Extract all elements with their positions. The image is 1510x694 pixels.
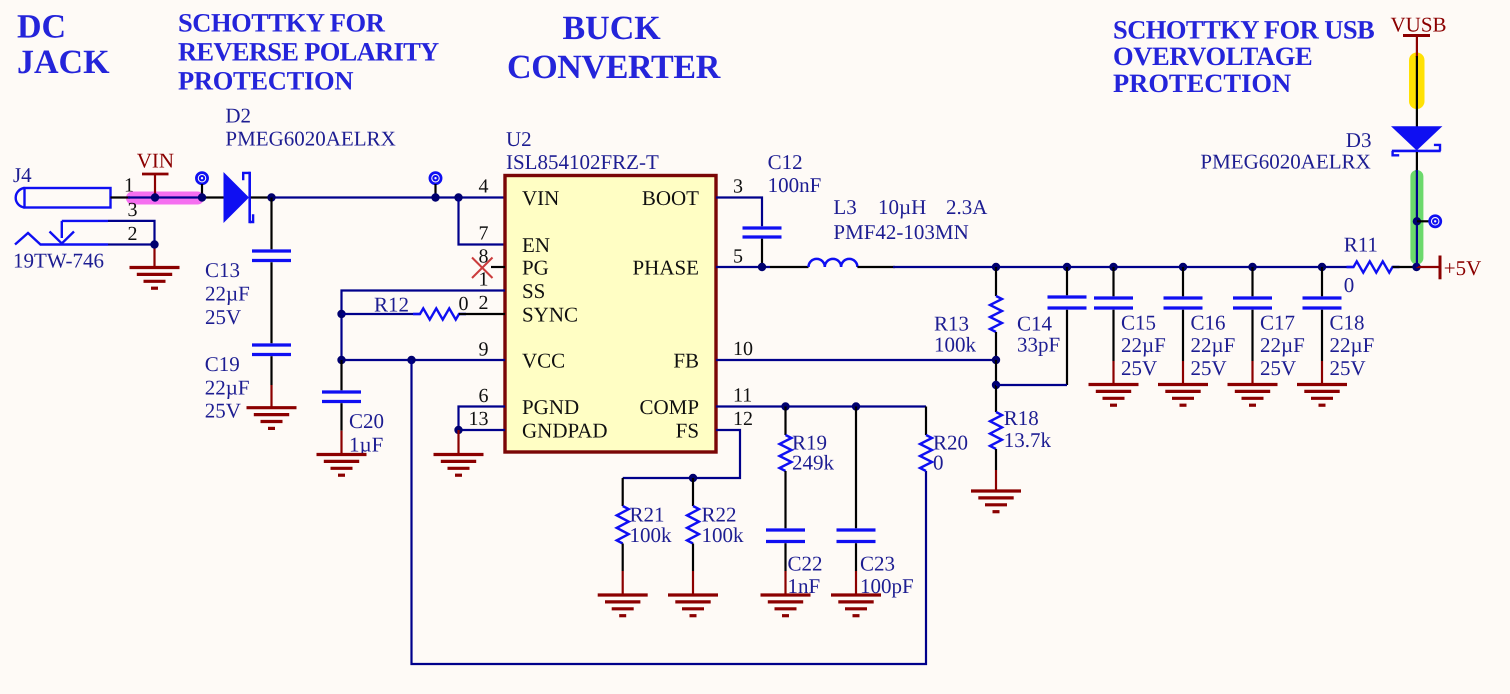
- resistor R12: [413, 308, 466, 319]
- wire C23 top stub: [855, 407, 857, 529]
- resistor R21: [617, 506, 629, 544]
- svg-text:PG: PG: [522, 255, 549, 279]
- header BUCK CONVERTER: [507, 10, 721, 86]
- wire +5V net rail: [893, 266, 1354, 268]
- ground at C17: [1228, 385, 1278, 406]
- U2 left pin numbers: [469, 176, 489, 431]
- svg-text:22µF: 22µF: [1121, 333, 1166, 357]
- wire C16 ground stub: [1182, 310, 1184, 384]
- capacitor C18: [1303, 298, 1342, 308]
- svg-text:SS: SS: [522, 279, 545, 303]
- svg-text:6: 6: [479, 385, 489, 407]
- wire D2 anode stub: [202, 196, 224, 198]
- junction C23 tap: [852, 402, 860, 410]
- port symbol on VIN net: [196, 173, 207, 184]
- wire D3 anode to +5V node: [1416, 170, 1418, 267]
- wire C13 top stub: [270, 198, 272, 250]
- wire SS net: [342, 291, 506, 361]
- svg-text:22µF: 22µF: [1330, 333, 1375, 357]
- header DC JACK: [17, 9, 110, 81]
- svg-text:11: 11: [733, 385, 752, 407]
- svg-text:VUSB: VUSB: [1391, 13, 1447, 37]
- wire EN branch to U2 pin 7: [459, 198, 506, 245]
- svg-text:C13: C13: [205, 258, 240, 282]
- svg-text:100k: 100k: [702, 523, 745, 547]
- svg-text:SCHOTTKY FOR: SCHOTTKY FOR: [178, 8, 386, 38]
- svg-text:REVERSE POLARITY: REVERSE POLARITY: [178, 37, 439, 67]
- junction VCC rail: [407, 356, 415, 364]
- junction VCC-C20: [337, 356, 345, 364]
- inductor L3: [809, 259, 858, 267]
- svg-text:25V: 25V: [1191, 356, 1227, 380]
- svg-text:CONVERTER: CONVERTER: [507, 49, 721, 86]
- svg-text:25V: 25V: [1260, 356, 1296, 380]
- C13 label: [205, 258, 250, 329]
- svg-text:2.3A: 2.3A: [946, 195, 988, 219]
- junction D3 port tap: [1413, 217, 1421, 225]
- wire port stub 2: [434, 184, 436, 198]
- wire PGND net: [459, 407, 506, 431]
- wire C16 top stub: [1182, 267, 1184, 296]
- junction R19 tap: [781, 402, 789, 410]
- svg-text:0: 0: [459, 293, 469, 315]
- capacitor C23: [837, 530, 876, 542]
- svg-text:100k: 100k: [630, 523, 673, 547]
- svg-text:0: 0: [1344, 273, 1355, 297]
- junction C12-PHASE: [758, 263, 766, 271]
- green highlight on +5V net: [1410, 170, 1423, 265]
- C17 label: [1260, 311, 1305, 381]
- svg-text:C16: C16: [1191, 311, 1226, 335]
- wire VIN_REG net D2 to U2 pin 4: [272, 196, 506, 198]
- ground at C19: [247, 408, 297, 429]
- C22 label: [788, 552, 823, 599]
- svg-text:C20: C20: [349, 409, 384, 433]
- svg-text:25V: 25V: [1330, 356, 1366, 380]
- svg-text:9: 9: [479, 339, 489, 361]
- svg-text:22µF: 22µF: [205, 282, 250, 306]
- junction FB: [992, 356, 1000, 364]
- wire D2 cathode stub: [251, 196, 272, 198]
- wire C13 to C19: [270, 262, 272, 343]
- svg-text:22µF: 22µF: [205, 376, 250, 400]
- ground at C23: [831, 595, 881, 616]
- wire R12 to U2 pin 2: [459, 313, 505, 315]
- svg-text:C22: C22: [788, 552, 823, 576]
- wire C14 top stub: [1066, 267, 1068, 295]
- svg-text:4: 4: [479, 176, 489, 198]
- ground at C15: [1089, 385, 1139, 406]
- svg-text:PROTECTION: PROTECTION: [1113, 68, 1291, 98]
- wire PHASE net: [716, 266, 770, 268]
- C12 label: [768, 150, 822, 197]
- svg-text:C19: C19: [205, 352, 240, 376]
- svg-text:D2: D2: [225, 104, 251, 128]
- junction C15 tap: [1109, 263, 1117, 271]
- wire R22 ground stub: [692, 544, 694, 595]
- wire R20 top stub: [925, 407, 927, 436]
- resistor R19: [780, 435, 792, 471]
- wire C15 top stub: [1112, 267, 1114, 296]
- R13 label: [934, 312, 977, 357]
- wire R19 top stub: [784, 407, 786, 436]
- svg-text:R18: R18: [1004, 406, 1039, 430]
- wire port stub: [201, 184, 203, 198]
- power symbol VUSB: [1403, 36, 1430, 58]
- svg-text:R12: R12: [374, 293, 409, 317]
- wire R11 to +5V node: [1393, 266, 1417, 268]
- L3 label: [833, 195, 988, 219]
- svg-text:10: 10: [733, 338, 753, 360]
- wire SYNC left segment: [342, 313, 421, 315]
- svg-text:19TW-746: 19TW-746: [13, 249, 104, 273]
- svg-text:3: 3: [733, 176, 743, 198]
- op-amp U2 body: [505, 176, 716, 453]
- svg-text:OVERVOLTAGE: OVERVOLTAGE: [1113, 41, 1312, 71]
- wire FB net: [716, 359, 996, 361]
- svg-text:PMF42-103MN: PMF42-103MN: [833, 220, 968, 244]
- wire VUSB to D3 cathode top: [1416, 56, 1418, 127]
- C20 label: [349, 409, 384, 457]
- svg-text:+5V: +5V: [1444, 256, 1482, 280]
- R20 label: [933, 431, 968, 475]
- svg-text:VIN: VIN: [522, 186, 559, 210]
- power symbol +5V: [1417, 256, 1441, 280]
- C23 label: [860, 552, 914, 599]
- junction C17 tap: [1248, 263, 1256, 271]
- no-connect X on PG: [472, 258, 493, 279]
- ground at R22: [668, 595, 718, 616]
- svg-text:D3: D3: [1346, 128, 1372, 152]
- U2 right pin numbers: [733, 176, 753, 431]
- svg-text:U2: U2: [506, 127, 532, 151]
- C15 label: [1121, 311, 1166, 381]
- svg-text:SCHOTTKY FOR USB: SCHOTTKY FOR USB: [1113, 15, 1374, 45]
- wire J4 pin 3 to ground branch: [108, 221, 155, 245]
- capacitor C16: [1164, 298, 1203, 308]
- wire C18 ground stub: [1321, 310, 1323, 384]
- ground at C20: [317, 455, 367, 476]
- ground at R21: [598, 595, 648, 616]
- svg-text:1: 1: [124, 175, 134, 197]
- wire C22 ground stub: [784, 543, 786, 594]
- svg-text:R11: R11: [1344, 233, 1378, 257]
- junction C16 tap: [1179, 263, 1187, 271]
- svg-text:FB: FB: [673, 348, 699, 372]
- capacitor C15: [1094, 298, 1133, 308]
- header SCHOTTKY FOR USB OVERVOLTAGE PROTECTION: [1113, 15, 1374, 99]
- C19 label: [205, 352, 250, 423]
- capacitor C22: [766, 530, 805, 542]
- svg-text:C23: C23: [860, 552, 895, 576]
- resistor R11: [1347, 261, 1400, 272]
- wire J4 ground stub: [153, 245, 155, 267]
- svg-text:25V: 25V: [205, 305, 241, 329]
- wire C23 ground stub: [855, 543, 857, 594]
- junction J4 pins 2-3: [150, 240, 158, 248]
- resistor R13: [990, 296, 1002, 332]
- svg-text:C18: C18: [1330, 311, 1365, 335]
- wire FB to R18 node: [995, 360, 997, 385]
- ground at R18: [971, 491, 1021, 512]
- svg-text:100k: 100k: [934, 333, 977, 357]
- C14 label: [1017, 312, 1060, 357]
- wire GNDPAD net: [459, 429, 506, 431]
- wire C17 ground stub: [1251, 310, 1253, 384]
- junction PGND-GNDPAD: [454, 426, 462, 434]
- svg-text:BUCK: BUCK: [563, 10, 662, 47]
- svg-text:GNDPAD: GNDPAD: [522, 418, 608, 442]
- svg-text:FS: FS: [676, 418, 699, 442]
- svg-text:PROTECTION: PROTECTION: [178, 66, 353, 96]
- svg-text:BOOT: BOOT: [642, 186, 699, 210]
- svg-text:COMP: COMP: [639, 395, 699, 419]
- header SCHOTTKY FOR REVERSE POLARITY PROTECTION: [178, 8, 439, 96]
- capacitor C14: [1048, 297, 1087, 308]
- svg-text:C15: C15: [1121, 311, 1156, 335]
- wire J4 pin 2 to ground branch: [108, 243, 155, 245]
- wire COMP net: [716, 405, 926, 407]
- junction SYNC branch: [337, 310, 345, 318]
- resistor R20: [920, 435, 932, 471]
- svg-text:PMEG6020AELRX: PMEG6020AELRX: [1200, 150, 1370, 174]
- ground at C22: [761, 595, 811, 616]
- svg-text:0: 0: [933, 451, 944, 475]
- svg-text:DC: DC: [17, 9, 66, 46]
- capacitor C19: [252, 345, 291, 355]
- svg-text:J4: J4: [13, 163, 32, 187]
- wire R19 to C22: [784, 471, 786, 528]
- svg-text:L3: L3: [833, 195, 856, 219]
- yellow highlight on VUSB net: [1409, 53, 1425, 110]
- wire C17 top stub: [1251, 267, 1253, 296]
- svg-text:VCC: VCC: [522, 348, 565, 372]
- wire BOOT net: [716, 198, 762, 227]
- svg-text:PGND: PGND: [522, 395, 579, 419]
- capacitor C12: [743, 228, 782, 237]
- svg-text:VIN: VIN: [137, 149, 174, 173]
- U2 left pin names: [522, 186, 608, 443]
- svg-text:13: 13: [469, 408, 489, 430]
- capacitor C20: [322, 392, 361, 402]
- wire C20 top stub: [340, 360, 342, 390]
- wire D3 anode stub: [1416, 152, 1418, 172]
- junction EN branch: [454, 193, 462, 201]
- junction R22 tap: [689, 474, 697, 482]
- svg-text:C12: C12: [768, 150, 803, 174]
- capacitor C17: [1233, 298, 1272, 308]
- svg-text:SYNC: SYNC: [522, 302, 578, 326]
- capacitor C13: [252, 251, 291, 261]
- svg-text:12: 12: [733, 408, 753, 430]
- svg-text:10µH: 10µH: [878, 195, 926, 219]
- svg-text:22µF: 22µF: [1191, 333, 1236, 357]
- diode D2: [224, 172, 254, 224]
- junction port stub 2: [431, 193, 439, 201]
- port symbol near U2: [430, 173, 441, 184]
- svg-text:33pF: 33pF: [1017, 333, 1060, 357]
- wire C18 top stub: [1321, 267, 1323, 296]
- svg-text:100nF: 100nF: [768, 173, 822, 197]
- ground at J4: [130, 268, 180, 289]
- wire R22 top stub: [692, 478, 694, 506]
- svg-text:22µF: 22µF: [1260, 333, 1305, 357]
- wire GNDPAD ground stub: [457, 430, 459, 454]
- svg-text:13.7k: 13.7k: [1004, 428, 1052, 452]
- wire FS net: [623, 430, 740, 478]
- R19 label: [792, 431, 835, 475]
- wire port stub 3: [1417, 220, 1429, 222]
- svg-text:ISL854102FRZ-T: ISL854102FRZ-T: [506, 150, 659, 174]
- wire C12 to PHASE: [761, 239, 763, 267]
- connector J4 barrel pin: [16, 188, 111, 208]
- magenta highlight on VIN net: [126, 192, 204, 205]
- C18 label: [1330, 311, 1375, 381]
- junction VIN stub: [151, 193, 159, 201]
- svg-text:C17: C17: [1260, 311, 1295, 335]
- wire C19 ground stub: [270, 356, 272, 407]
- wire R21 ground stub: [622, 544, 624, 595]
- U2 right pin names: [632, 186, 699, 443]
- wire R18 top stub: [995, 385, 997, 412]
- svg-text:3: 3: [128, 199, 138, 221]
- svg-text:25V: 25V: [205, 399, 241, 423]
- svg-text:EN: EN: [522, 233, 550, 257]
- ground at C18: [1297, 385, 1347, 406]
- wire L3 left stub: [770, 266, 809, 268]
- wire COMP feedback rail: [412, 360, 927, 664]
- R22 label: [702, 503, 745, 548]
- svg-text:249k: 249k: [792, 451, 835, 475]
- svg-text:25V: 25V: [1121, 356, 1157, 380]
- wire R18 ground stub: [995, 449, 997, 490]
- wire L3 right stub: [857, 266, 895, 268]
- junction R13 tap: [992, 263, 1000, 271]
- svg-text:PMEG6020AELRX: PMEG6020AELRX: [225, 126, 395, 150]
- junction C14 tap: [1063, 263, 1071, 271]
- resistor R22: [687, 506, 699, 544]
- wire C20 ground stub: [340, 403, 342, 453]
- junction port stub: [198, 193, 206, 201]
- wire R21 top stub: [622, 478, 624, 506]
- ground at C16: [1158, 385, 1208, 406]
- junction C18 tap: [1318, 263, 1326, 271]
- connector J4 switch contact: [15, 221, 108, 245]
- wire VCC net: [342, 359, 506, 361]
- wire C15 ground stub: [1112, 310, 1114, 384]
- wire C14 to R18 node: [996, 310, 1067, 385]
- R18 label: [1004, 406, 1052, 452]
- wire R13 top stub: [995, 267, 997, 296]
- ground at GNDPAD: [434, 455, 484, 476]
- wire VIN net to D2 anode: [128, 196, 202, 198]
- svg-text:2: 2: [128, 223, 138, 245]
- svg-text:7: 7: [479, 223, 489, 245]
- svg-text:JACK: JACK: [17, 44, 110, 81]
- R21 label: [630, 503, 673, 548]
- wire J4 pin 1 stub: [111, 196, 131, 198]
- svg-text:5: 5: [733, 246, 743, 268]
- resistor R18: [990, 412, 1002, 449]
- wire R13 to FB: [995, 332, 997, 360]
- svg-text:2: 2: [479, 292, 489, 314]
- diode D3: [1391, 126, 1442, 155]
- power symbol VIN: [142, 174, 169, 198]
- port symbol on +5V net: [1430, 216, 1441, 227]
- C16 label: [1191, 311, 1236, 381]
- junction R18 node: [992, 381, 1000, 389]
- junction +5V node: [1412, 263, 1420, 271]
- junction C13 tap: [267, 193, 275, 201]
- wire PG stub: [491, 266, 505, 268]
- svg-text:PHASE: PHASE: [632, 255, 699, 279]
